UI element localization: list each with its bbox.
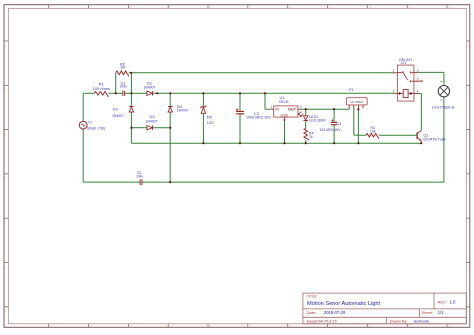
node C4 gnd <box>333 142 335 144</box>
svg-text:P1: P1 <box>349 88 354 92</box>
node emitter gnd <box>420 142 422 144</box>
pin 2 RELAY1 <box>393 69 395 73</box>
wire C1 right lead <box>125 92 131 94</box>
svg-text:LIGHT BULB: LIGHT BULB <box>432 105 455 109</box>
svg-text:SIN(0 1 50): SIN(0 1 50) <box>87 127 105 131</box>
svg-text:6: 6 <box>209 5 211 9</box>
svg-text:104u: 104u <box>136 174 143 178</box>
wire C1 right node drop <box>130 73 132 94</box>
pin 3 U1 <box>300 105 302 109</box>
resistor R1 <box>93 81 111 97</box>
node bridge bottom left <box>130 127 132 129</box>
svg-text:12V: 12V <box>401 61 408 65</box>
svg-text:5: 5 <box>170 5 172 9</box>
svg-text:REV:: REV: <box>438 300 447 305</box>
pin 1 RELAY1 <box>393 90 395 94</box>
wire C4 lower lead <box>333 125 335 143</box>
svg-text:TITLE:: TITLE: <box>307 295 318 299</box>
svg-text:12: 12 <box>448 5 452 9</box>
svg-text:11: 11 <box>409 5 413 9</box>
wire ground rail <box>131 142 421 144</box>
svg-text:HC-SR501: HC-SR501 <box>351 100 364 104</box>
svg-text:1.0: 1.0 <box>450 300 456 305</box>
wire C4 upper lead <box>333 109 335 122</box>
wire P1 out down <box>353 108 355 135</box>
svg-text:Drawn By:: Drawn By: <box>390 320 408 324</box>
wire P1 ground down <box>357 108 359 143</box>
svg-text:G: G <box>4 265 7 269</box>
svg-text:D2: D2 <box>113 106 119 111</box>
node neutral tap <box>169 181 171 183</box>
svg-text:78L05: 78L05 <box>279 100 289 104</box>
node P1 gnd rail <box>357 142 359 144</box>
svg-text:6: 6 <box>209 324 211 328</box>
wire relay pin4 to collector <box>418 93 422 95</box>
svg-text:G: G <box>467 265 470 269</box>
svg-text:F: F <box>4 221 6 225</box>
svg-text:4: 4 <box>130 324 132 328</box>
node zener gnd <box>202 142 204 144</box>
svg-text:Motion Senor Automatic Light: Motion Senor Automatic Light <box>307 301 381 307</box>
svg-text:IN: IN <box>275 107 279 111</box>
svg-text:V1: V1 <box>88 120 92 124</box>
svg-text:D5: D5 <box>207 115 213 120</box>
wire AC neutral right <box>142 181 444 183</box>
svg-text:1000 MFD 25V: 1000 MFD 25V <box>246 115 271 119</box>
node coil left <box>399 92 401 94</box>
zener diode D5 <box>201 106 215 125</box>
wire C3 upper lead <box>239 93 241 111</box>
svg-text:100 ohms: 100 ohms <box>93 86 111 91</box>
node coil right <box>410 92 412 94</box>
svg-text:105u: 105u <box>119 85 127 89</box>
pin 1 U1 <box>271 105 273 109</box>
svg-text:7: 7 <box>249 324 251 328</box>
svg-text:7: 7 <box>249 5 251 9</box>
wire AC live from V1 to R1 <box>83 92 94 94</box>
wire ground bend down <box>130 128 132 144</box>
wire V1 bottom lead <box>82 129 84 182</box>
node C1 right <box>130 92 132 94</box>
pin 4 RELAY1 <box>417 90 419 94</box>
svg-text:9: 9 <box>329 324 331 328</box>
svg-text:GND: GND <box>280 114 288 118</box>
diode D3 <box>146 114 158 130</box>
voltage source V1 <box>79 120 105 130</box>
svg-text:EasyEDA V5.6.15: EasyEDA V5.6.15 <box>307 320 337 324</box>
node D1 cathode <box>156 92 158 94</box>
svg-text:4: 4 <box>130 5 132 9</box>
wire D3 to bridge bottom right <box>153 127 170 129</box>
svg-text:1N4007: 1N4007 <box>177 109 189 113</box>
svg-text:2: 2 <box>393 69 395 73</box>
wire C3 lower lead <box>239 114 241 143</box>
light bulb <box>432 82 455 110</box>
wire R3 to Q1 base <box>379 134 417 136</box>
wire P1 out to R3 <box>354 134 366 136</box>
svg-text:BC547B Tube: BC547B Tube <box>423 138 445 142</box>
wire R4 to ground <box>305 140 307 143</box>
capacitor C4 <box>320 119 342 132</box>
svg-text:F: F <box>467 221 469 225</box>
node zener top <box>202 92 204 94</box>
svg-text:1M: 1M <box>120 65 125 69</box>
wire relay pin3 to bulb <box>418 71 444 73</box>
svg-text:1/1: 1/1 <box>438 310 444 315</box>
svg-text:3: 3 <box>417 69 419 73</box>
op-amp U1 (78L05 regulator) <box>271 95 306 122</box>
capacitor C2 <box>136 171 143 185</box>
wire main DC rail D1 to relay pin1 <box>153 92 394 94</box>
wire bridge bottom left to D3 <box>131 127 147 129</box>
wire U1 input drop <box>264 93 266 109</box>
svg-text:1N4007: 1N4007 <box>112 114 124 118</box>
node U1 gnd <box>283 142 285 144</box>
wire zener lower <box>202 114 204 144</box>
wire LED to R4 <box>305 121 307 128</box>
svg-text:100 MFD 16V: 100 MFD 16V <box>320 128 342 132</box>
svg-text:5: 5 <box>417 77 419 81</box>
node P1 gnd pin <box>357 108 359 110</box>
svg-text:10: 10 <box>369 5 373 9</box>
wire node up to R2 left <box>115 73 117 94</box>
node C4 top <box>333 108 335 110</box>
wire U1 input horizontal <box>265 108 271 110</box>
wire V1 top lead <box>82 93 84 121</box>
svg-text:Sheet:: Sheet: <box>422 310 434 315</box>
node R1-C1-R2 <box>115 92 117 94</box>
svg-text:OUT: OUT <box>288 107 297 111</box>
wire bridge left lower <box>130 112 132 128</box>
transistor Q1 <box>417 130 446 143</box>
wire bulb upper lead <box>443 72 445 85</box>
svg-text:10k: 10k <box>370 129 376 133</box>
svg-text:2: 2 <box>50 5 52 9</box>
svg-text:7k: 7k <box>309 135 313 139</box>
svg-text:3: 3 <box>90 5 92 9</box>
node bridge right top <box>169 92 171 94</box>
capacitor C1 <box>119 81 127 96</box>
svg-text:Date:: Date: <box>307 310 317 315</box>
svg-text:C4: C4 <box>337 122 342 126</box>
wire bridge right down to neutral <box>169 128 171 182</box>
wire U1 ground lead <box>284 121 286 143</box>
wire bulb lower lead <box>443 97 445 182</box>
diode D2 <box>112 106 134 118</box>
wire bridge right upper <box>169 93 171 106</box>
connector P1 (PIR sensor header) <box>346 88 367 109</box>
svg-text:LED-3MM: LED-3MM <box>309 119 325 123</box>
svg-text:8: 8 <box>289 324 291 328</box>
svg-text:10: 10 <box>369 324 373 328</box>
resistor R2 <box>116 62 129 77</box>
node bridge bottom right <box>169 127 171 129</box>
wire bridge left upper <box>130 93 132 106</box>
node R2 right <box>130 72 132 74</box>
resistor R3 <box>366 126 379 139</box>
svg-text:3: 3 <box>90 324 92 328</box>
svg-text:3: 3 <box>300 105 302 109</box>
svg-text:12V: 12V <box>207 120 214 125</box>
svg-text:4: 4 <box>417 90 419 94</box>
node R4 gnd <box>305 142 307 144</box>
node C3 gnd <box>239 142 241 144</box>
node 5V LED tap <box>305 108 307 110</box>
capacitor C3 <box>236 108 271 119</box>
pin 3 RELAY1 <box>417 69 419 73</box>
relay RELAY1 <box>394 58 422 101</box>
pin 5 RELAY1 <box>417 77 419 81</box>
wire AC neutral left <box>83 181 140 183</box>
svg-text:1N4007: 1N4007 <box>146 119 158 123</box>
wire Q1 collector <box>420 94 422 130</box>
wire bridge right lower <box>169 112 171 128</box>
wire C1 left lead <box>116 92 123 94</box>
wire 5V out horizontal <box>306 108 350 110</box>
svg-text:technote: technote <box>414 319 430 324</box>
node U1 in tap <box>264 92 266 94</box>
wire R1 to node C1-left <box>109 92 117 94</box>
wire R2 right to relay rail <box>129 72 394 74</box>
svg-text:2018-07-29: 2018-07-29 <box>324 310 346 315</box>
svg-text:2: 2 <box>50 324 52 328</box>
svg-text:1: 1 <box>393 90 395 94</box>
resistor R4 <box>304 128 314 140</box>
diode D1 <box>144 80 156 95</box>
svg-text:1N4007: 1N4007 <box>144 85 156 89</box>
svg-text:9: 9 <box>329 5 331 9</box>
svg-text:5: 5 <box>170 324 172 328</box>
svg-text:1: 1 <box>271 105 273 109</box>
wire main rail C1 to D1 <box>131 92 147 94</box>
diode D4 <box>168 104 189 113</box>
wire zener upper <box>202 93 204 106</box>
svg-text:11: 11 <box>409 324 413 328</box>
svg-text:12: 12 <box>448 324 452 328</box>
LED LED1 <box>298 112 326 123</box>
svg-text:8: 8 <box>289 5 291 9</box>
wire LED top lead <box>305 109 307 116</box>
node C3 top <box>239 92 241 94</box>
